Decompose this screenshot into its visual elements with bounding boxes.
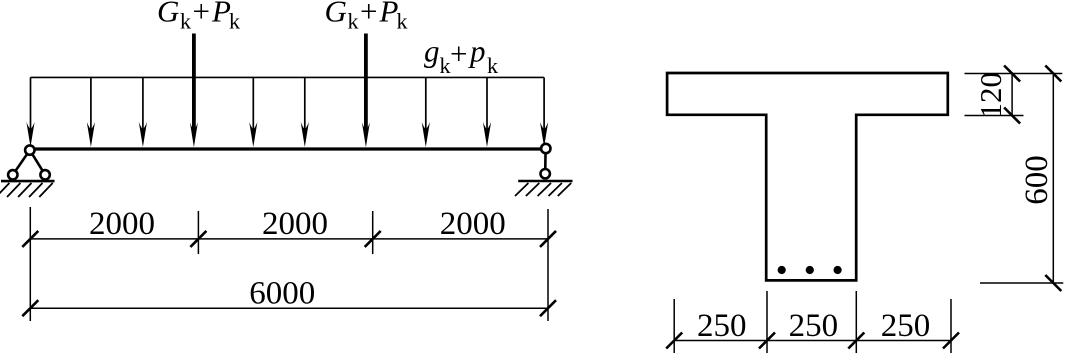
svg-text:k: k	[397, 9, 408, 34]
dimension extension line mid2	[372, 211, 374, 254]
distributed load arrow 6	[422, 77, 430, 147]
dim line 600	[1052, 74, 1054, 284]
point load arrow P1	[190, 34, 198, 148]
svg-text:k: k	[229, 9, 240, 34]
svg-text:P: P	[211, 0, 231, 29]
tick 6000 right	[540, 300, 556, 316]
dimension line 2000 row	[30, 238, 548, 240]
right support roller circle	[541, 169, 550, 178]
rebar dot 3	[834, 266, 842, 274]
dim line 250 row	[674, 340, 951, 342]
svg-text:120: 120	[973, 72, 1008, 119]
ext line web bottom right	[980, 282, 1063, 284]
svg-text:P: P	[379, 0, 399, 29]
svg-text:g: g	[424, 34, 440, 69]
rebar dot 2	[806, 266, 814, 274]
ext line 250 web-left	[766, 291, 768, 353]
tick 6000 left	[22, 300, 38, 316]
tick 250 row 2	[759, 333, 775, 349]
svg-text:2000: 2000	[440, 206, 506, 242]
tick 2000 row 2	[190, 231, 206, 247]
svg-text:2000: 2000	[262, 206, 328, 242]
dimension extension line mid1	[197, 211, 199, 254]
ext line flange bottom	[965, 115, 1024, 117]
left support ground line	[1, 180, 55, 183]
svg-text:2000: 2000	[89, 206, 155, 242]
svg-text:G: G	[157, 0, 179, 29]
distributed load arrow 2	[87, 77, 95, 147]
label Gk+Pk (right)	[325, 0, 408, 34]
ext line 250 web-right	[855, 291, 857, 353]
dimension line 6000	[30, 307, 548, 309]
ext line 250 far-right	[950, 299, 952, 353]
label Gk+Pk (left)	[157, 0, 240, 34]
ext line 250 far-left	[673, 299, 675, 353]
svg-text:+: +	[360, 0, 377, 29]
svg-text:+: +	[193, 0, 210, 29]
tick 2000 row 4	[540, 231, 556, 247]
distributed load arrow 3	[139, 77, 147, 147]
tick 250 row 3	[848, 333, 864, 349]
right support ground hatching	[515, 183, 571, 196]
right support hinge circle	[541, 144, 550, 153]
left support ground hatching	[0, 183, 53, 197]
distributed load arrow 7	[483, 77, 491, 147]
dim line 120	[1011, 74, 1013, 116]
dimension extension line left	[29, 207, 31, 321]
svg-text:k: k	[440, 53, 451, 78]
svg-text:250: 250	[697, 308, 747, 344]
label gk+pk	[424, 34, 498, 79]
tick 2000 row 3	[365, 231, 381, 247]
svg-text:+: +	[450, 36, 467, 71]
point load arrow P2	[362, 34, 370, 148]
tick 600 bottom	[1045, 275, 1061, 291]
svg-text:p: p	[468, 34, 486, 69]
svg-text:250: 250	[789, 308, 839, 344]
ext line flange top	[965, 73, 1063, 75]
svg-text:k: k	[180, 9, 191, 34]
tick 2000 row 1	[22, 231, 38, 247]
left support roller circle B	[40, 170, 49, 179]
svg-text:G: G	[325, 0, 347, 29]
distributed load arrow 8	[540, 77, 548, 147]
T-section outline	[667, 73, 948, 280]
svg-text:250: 250	[881, 308, 931, 344]
svg-text:600: 600	[1019, 155, 1055, 205]
tick 120 bottom	[1004, 108, 1020, 124]
rebar dot 1	[778, 266, 786, 274]
tick 600 top	[1045, 66, 1061, 82]
tick 250 row 1	[666, 333, 682, 349]
right support ground line	[518, 180, 572, 183]
left support roller circle A	[8, 170, 17, 179]
svg-text:k: k	[348, 9, 359, 34]
distributed load arrow 5	[301, 77, 309, 147]
left pin support legs	[13, 150, 45, 175]
tick 250 row 4	[943, 333, 959, 349]
tick 120 top	[1004, 66, 1020, 82]
dimension extension line right	[547, 209, 549, 321]
beam	[30, 147, 546, 150]
right roller support link	[544, 149, 547, 174]
left pin support hinge circle	[25, 145, 34, 154]
distributed load arrow 1	[26, 77, 34, 147]
svg-text:6000: 6000	[249, 275, 315, 311]
distributed load top line	[31, 76, 545, 78]
svg-text:k: k	[487, 53, 498, 78]
distributed load arrow 4	[249, 77, 257, 147]
